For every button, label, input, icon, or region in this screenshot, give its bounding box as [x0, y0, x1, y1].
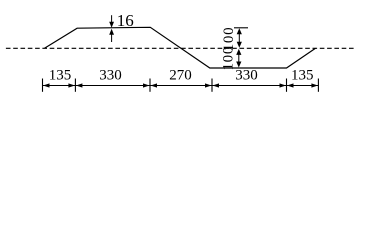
seg 330 left arrow — [76, 83, 83, 87]
svg-text:270: 270 — [169, 67, 192, 83]
seg 135b left arrow — [287, 83, 294, 87]
dashed centerline — [6, 47, 355, 49]
dim 16 upper shaft — [111, 15, 113, 22]
dim 16 up arrowhead (tip under plateau line) — [109, 29, 114, 35]
tick T3 — [211, 79, 213, 92]
plateau-level reference tick over trough — [234, 27, 248, 29]
seg 270 left arrow — [151, 83, 158, 87]
seg 270 right arrow — [205, 83, 212, 87]
upper 100 up arrowhead — [237, 28, 242, 34]
profile polyline (left slope, plateau, down slope, trough bottom, right slope) — [45, 27, 316, 68]
seg 330b right arrow — [280, 83, 287, 87]
lower 100 double arrow shaft — [238, 54, 240, 63]
tick T4 — [286, 79, 288, 92]
seg 330 right arrow — [143, 83, 150, 87]
upper 100 double arrow shaft — [238, 33, 240, 43]
svg-text:330: 330 — [99, 67, 122, 83]
upper 100 down arrowhead — [237, 42, 242, 48]
svg-text:16: 16 — [117, 11, 134, 30]
lower 100 down arrowhead — [236, 62, 241, 68]
svg-text:135: 135 — [291, 67, 314, 83]
svg-text:100: 100 — [220, 46, 236, 71]
tick T1 — [74, 79, 76, 92]
seg 330b left arrow — [213, 83, 220, 87]
seg 135 left arrow — [43, 83, 50, 87]
dim 16 down arrowhead (tip on plateau line) — [109, 22, 114, 28]
tick T2 — [149, 79, 151, 92]
dim 16 lower shaft — [111, 34, 113, 42]
seg 135 right arrow — [68, 83, 75, 87]
tick T0 — [42, 79, 44, 92]
svg-text:330: 330 — [235, 67, 258, 83]
lower 100 up arrowhead — [236, 49, 241, 55]
svg-text:135: 135 — [49, 67, 72, 83]
dimension line — [43, 85, 319, 87]
seg 135b right arrow — [311, 83, 318, 87]
tick T5 — [317, 79, 319, 92]
